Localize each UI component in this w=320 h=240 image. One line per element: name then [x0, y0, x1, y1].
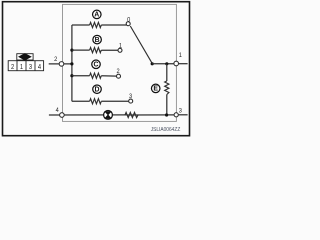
svg-text:0: 0: [127, 16, 131, 24]
svg-text:2: 2: [11, 63, 14, 71]
resistor unit box: [63, 4, 177, 121]
svg-text:4: 4: [38, 63, 41, 71]
contact 0: [126, 22, 130, 26]
junction pin2/bus: [70, 62, 73, 65]
svg-text:3: 3: [179, 107, 183, 115]
wire: bottom rail pin4 to pin3: [49, 114, 174, 116]
resistor F (bottom): [125, 112, 138, 117]
svg-text:E: E: [153, 86, 158, 93]
resistor C: [90, 73, 102, 78]
resistor D: [90, 99, 102, 104]
svg-text:C: C: [94, 62, 99, 69]
svg-text:1: 1: [179, 52, 183, 60]
resistor B: [90, 48, 102, 53]
terminal 3: [174, 113, 178, 117]
junction E branch top: [165, 62, 168, 65]
connector J1 pin-face view: [8, 54, 43, 71]
wire: terminal 1 stub: [179, 63, 188, 65]
junction bus/branch C: [70, 74, 73, 77]
svg-text:3: 3: [129, 92, 133, 100]
contact 1: [118, 48, 122, 52]
node: left bus: [71, 25, 73, 101]
resistor A: [90, 22, 102, 27]
wire: E branch upper: [166, 64, 168, 81]
label A: [93, 10, 102, 19]
junction E branch bottom: [165, 113, 168, 116]
terminal 4: [60, 113, 65, 118]
wire: branch B: [72, 49, 90, 51]
junction bus/branch B: [70, 49, 73, 52]
svg-text:2: 2: [117, 68, 121, 76]
svg-text:JSLIA0064ZZ: JSLIA0064ZZ: [151, 127, 181, 133]
connector key (diamond): [18, 53, 32, 60]
svg-text:A: A: [94, 12, 99, 19]
contact 3: [129, 99, 133, 103]
wire: branch A: [72, 24, 90, 26]
wire: pivot to terminal 1: [152, 63, 174, 65]
junction arm pivot: [151, 62, 154, 65]
thermal fuse F1: [104, 111, 113, 120]
wire: branch C: [72, 75, 90, 77]
label C: [92, 60, 101, 69]
svg-text:1: 1: [119, 42, 123, 50]
contact 2: [117, 74, 121, 78]
label B: [93, 35, 102, 44]
terminal 1: [174, 61, 179, 66]
wire: pin 2 lead: [49, 63, 72, 65]
terminal 2: [59, 62, 64, 67]
switch arm SW1: [130, 26, 152, 63]
svg-text:D: D: [95, 87, 100, 94]
wire: terminal 3 stub: [178, 114, 187, 116]
svg-text:B: B: [95, 37, 100, 44]
label E: [151, 84, 160, 93]
wire: branch D: [72, 100, 90, 102]
svg-text:4: 4: [56, 107, 60, 115]
wire: E branch lower: [166, 95, 168, 116]
label D: [93, 85, 102, 94]
svg-text:1: 1: [20, 63, 23, 71]
svg-text:2: 2: [54, 56, 58, 64]
svg-text:3: 3: [29, 63, 32, 71]
resistor E: [165, 81, 169, 95]
